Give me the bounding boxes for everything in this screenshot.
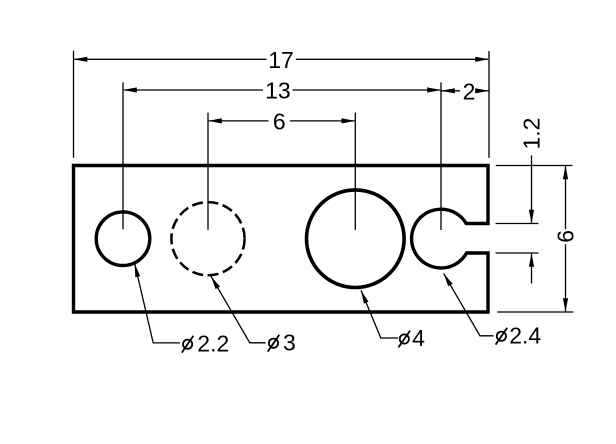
center line hole 2.2	[122, 82, 124, 229]
label dia 2.2	[182, 330, 229, 356]
center line hole 3	[207, 113, 209, 230]
svg-text:2.4: 2.4	[509, 322, 541, 348]
svg-text:1.2: 1.2	[519, 118, 545, 150]
svg-text:3: 3	[283, 329, 296, 355]
part outline with slot	[74, 166, 489, 313]
svg-text:4: 4	[412, 325, 425, 351]
extension line bottom right	[497, 311, 573, 313]
dimension 2	[441, 78, 489, 104]
leader 4	[361, 290, 398, 338]
dimension 17	[74, 47, 490, 73]
extension line left edge	[73, 51, 75, 158]
label dia 3	[268, 329, 296, 355]
dimension 6 top	[208, 109, 355, 135]
svg-text:2: 2	[463, 78, 476, 104]
dimension 13	[123, 78, 441, 104]
svg-text:17: 17	[268, 47, 294, 73]
leader 2.4	[444, 273, 494, 335]
leader 3	[211, 276, 266, 343]
center line hole 4	[354, 113, 356, 230]
label dia 2.4	[496, 322, 542, 348]
extension line slot bottom	[496, 252, 539, 254]
hole 3 dashed circle	[171, 202, 244, 275]
svg-text:2.2: 2.2	[197, 330, 229, 356]
leader 2.2	[135, 264, 180, 343]
hole 4 circle	[307, 190, 405, 288]
svg-text:13: 13	[265, 78, 291, 104]
dimension 1.2	[519, 118, 545, 284]
label dia 4	[399, 325, 426, 351]
center line hole 2.4	[440, 82, 442, 230]
extension line right edge	[488, 51, 490, 158]
svg-text:6: 6	[552, 230, 578, 243]
hole 2.2 circle	[96, 212, 150, 266]
extension line slot top	[496, 223, 539, 225]
dimension 6 right	[552, 166, 578, 313]
extension line top right	[496, 165, 573, 167]
svg-text:6: 6	[273, 109, 286, 135]
